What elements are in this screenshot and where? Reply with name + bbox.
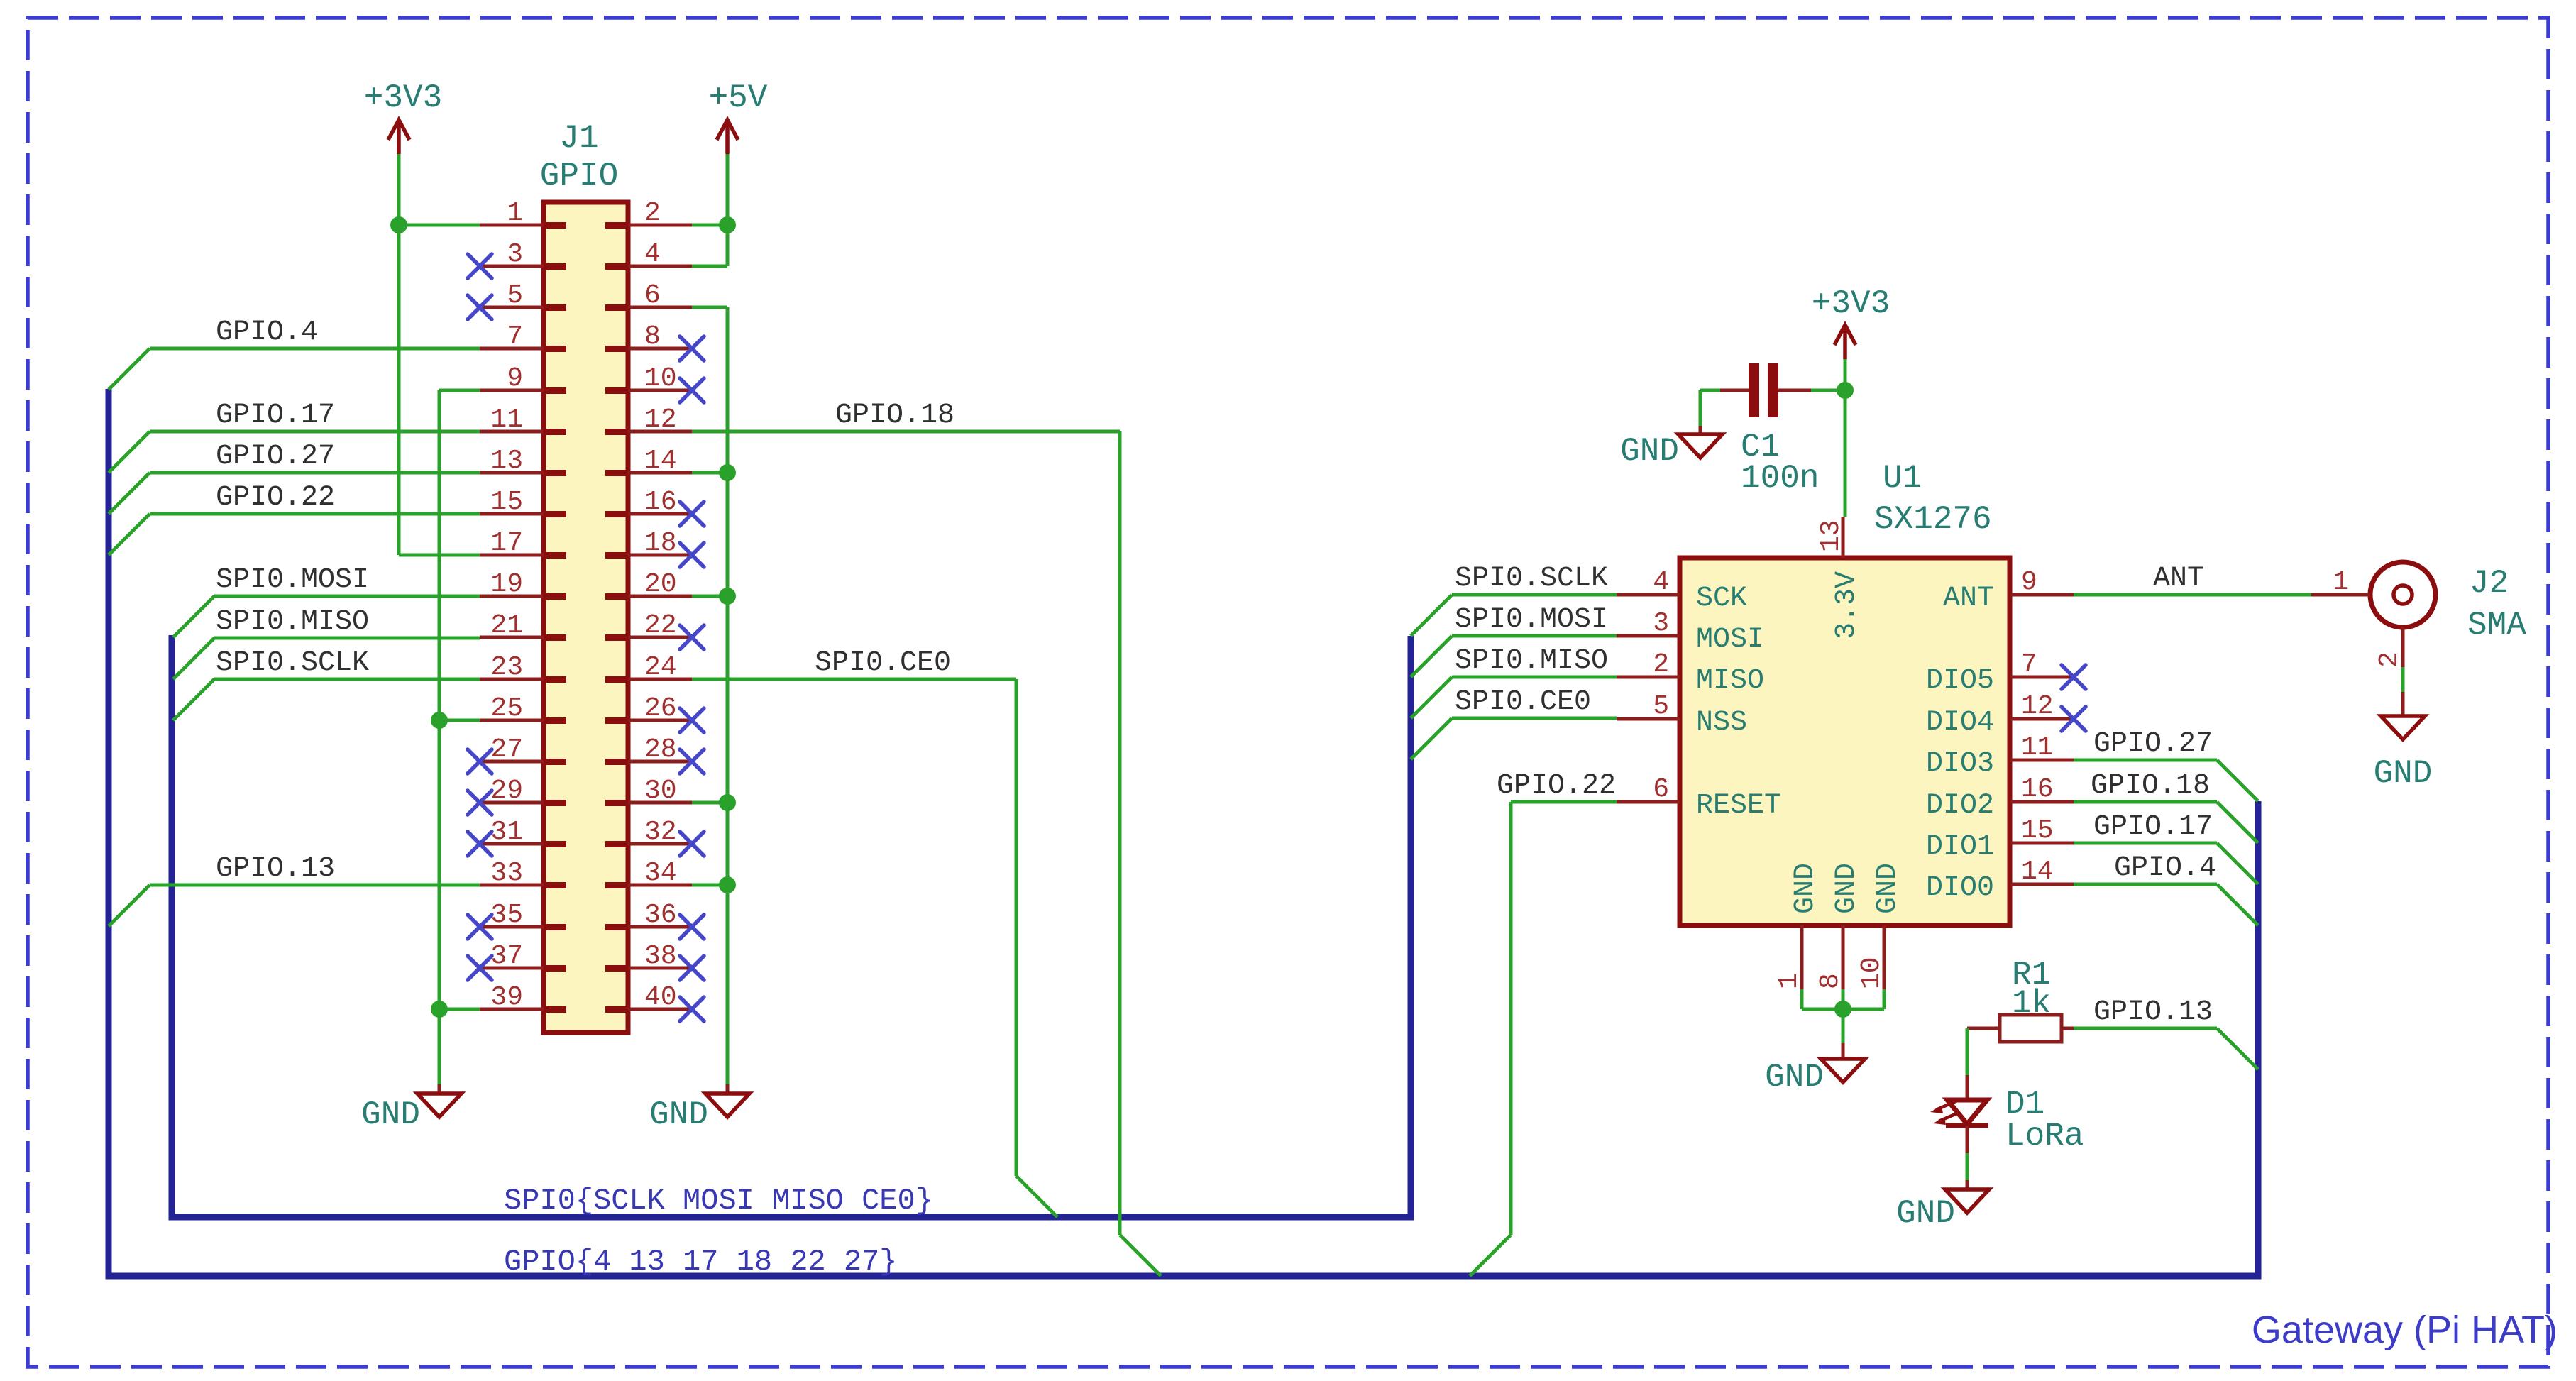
svg-text:SPI0.MISO: SPI0.MISO	[216, 606, 369, 638]
svg-text:J2: J2	[2470, 565, 2509, 602]
svg-text:12: 12	[644, 405, 677, 435]
wire GND column right (J1 pins 6,14,20,30,34)	[692, 307, 727, 1084]
bus GPIO{4 13 17 18 22 27}	[109, 389, 2258, 1276]
wire SPI0.MOSI (J1 pin19) with bus entry	[173, 596, 480, 637]
svg-text:GPIO{4 13 17 18 22 27}: GPIO{4 13 17 18 22 27}	[504, 1245, 898, 1279]
svg-text:SPI0.MOSI: SPI0.MOSI	[216, 564, 369, 596]
power symbol +5V (J1)	[709, 79, 768, 154]
ground symbol GND (D1)	[1896, 1189, 1989, 1232]
svg-text:1: 1	[507, 198, 523, 229]
power symbol +3V3 (U1)	[1812, 285, 1890, 359]
svg-text:11: 11	[2021, 732, 2054, 763]
svg-text:2: 2	[2374, 651, 2405, 668]
wire GND column left (J1 pins 9,25,39)	[439, 390, 480, 1084]
connector J2 SMA	[2311, 562, 2435, 627]
svg-text:2: 2	[644, 198, 661, 229]
svg-text:GND: GND	[1620, 433, 1679, 470]
svg-text:MISO: MISO	[1696, 665, 1764, 697]
svg-text:GPIO.22: GPIO.22	[1497, 770, 1616, 802]
junction GND at pin25	[431, 712, 448, 729]
U1 left pins (SCK,MOSI,MISO,NSS,RESET) with numbers	[1617, 567, 1781, 822]
svg-text:GPIO.27: GPIO.27	[216, 441, 335, 473]
bus SPI0{SCLK MOSI MISO CE0}	[172, 635, 1411, 1217]
wire U1 GND pins 1,8,10 to ground	[1802, 989, 1884, 1043]
svg-text:13: 13	[1816, 519, 1846, 552]
svg-text:9: 9	[2021, 567, 2037, 598]
no-connect X on U1 pin 7 (DIO5)	[2062, 665, 2086, 689]
svg-text:GND: GND	[2374, 755, 2433, 792]
svg-text:12: 12	[2021, 691, 2054, 722]
svg-text:SPI0.CE0: SPI0.CE0	[1455, 686, 1591, 718]
svg-text:GND: GND	[1872, 863, 1904, 914]
svg-text:SPI0.CE0: SPI0.CE0	[815, 647, 951, 679]
no-connect X on J1 pin 26	[680, 708, 704, 732]
svg-text:GPIO.4: GPIO.4	[2114, 852, 2216, 884]
svg-text:Gateway (Pi HAT): Gateway (Pi HAT)	[2252, 1309, 2558, 1351]
wire SPI0.CE0 (J1 pin24) down to SPI0 bus	[692, 679, 1057, 1217]
svg-text:GPIO.27: GPIO.27	[2093, 728, 2213, 760]
svg-text:SPI0{SCLK MOSI MISO CE0}: SPI0{SCLK MOSI MISO CE0}	[504, 1184, 933, 1218]
svg-text:1: 1	[1774, 973, 1805, 989]
no-connect X on J1 pin 16	[680, 502, 704, 526]
svg-text:28: 28	[644, 734, 677, 765]
svg-text:8: 8	[644, 321, 661, 352]
svg-text:25: 25	[490, 693, 523, 724]
svg-text:+5V: +5V	[709, 79, 768, 116]
junction +5V at pin2 wire	[719, 216, 736, 233]
connector J1 body	[544, 202, 628, 1033]
svg-text:39: 39	[490, 982, 523, 1013]
ground symbol GND (U1)	[1765, 1043, 1865, 1096]
svg-text:16: 16	[644, 487, 677, 517]
no-connect X on J1 pin 40	[680, 997, 704, 1021]
svg-text:34: 34	[644, 858, 677, 888]
svg-text:32: 32	[644, 817, 677, 847]
U1 right pins (ANT,DIO5..DIO0) with numbers	[1926, 567, 2074, 904]
svg-text:ANT: ANT	[2153, 563, 2204, 595]
ground symbol GND (J2)	[2374, 716, 2433, 792]
svg-text:38: 38	[644, 941, 677, 972]
svg-text:GPIO.4: GPIO.4	[216, 317, 318, 348]
svg-text:DIO5: DIO5	[1926, 665, 1994, 697]
ground symbol GND (below J1 right)	[649, 1084, 749, 1133]
svg-text:29: 29	[490, 776, 523, 806]
svg-text:GPIO.17: GPIO.17	[216, 400, 335, 431]
no-connect X on J1 pin 5	[468, 295, 492, 319]
wire GPIO.22 to U1 RESET with bus entry	[1470, 802, 1617, 1276]
svg-text:3.3V: 3.3V	[1831, 571, 1863, 639]
svg-text:6: 6	[1653, 774, 1669, 805]
wire SPI0.CE0 to U1 with bus entry	[1411, 718, 1617, 759]
no-connect X on J1 pin 10	[680, 378, 704, 402]
svg-text:7: 7	[2021, 649, 2037, 680]
svg-text:11: 11	[490, 405, 523, 435]
svg-text:GPIO.17: GPIO.17	[2093, 811, 2213, 843]
svg-text:GPIO.13: GPIO.13	[2093, 996, 2213, 1028]
svg-text:LoRa: LoRa	[2005, 1118, 2084, 1155]
wire C1 to GND	[1700, 390, 1720, 426]
svg-text:33: 33	[490, 858, 523, 888]
svg-text:3: 3	[507, 239, 523, 270]
svg-text:4: 4	[644, 239, 661, 270]
junction GND at pin14	[719, 464, 736, 481]
junction +3V3 / C1	[1837, 382, 1854, 399]
svg-text:GND: GND	[1765, 1059, 1824, 1096]
svg-text:6: 6	[644, 280, 661, 311]
J1 left pins 1-39 with pin numbers	[480, 198, 566, 1013]
svg-text:14: 14	[2021, 857, 2054, 887]
junction +3V3 at pin1 wire	[390, 216, 407, 233]
wire GPIO.22 (J1 pin15) with bus entry	[109, 514, 480, 555]
svg-text:22: 22	[644, 610, 677, 641]
junction U1 GND net	[1834, 1001, 1851, 1018]
no-connect X on J1 pin 18	[680, 543, 704, 567]
svg-text:35: 35	[490, 900, 523, 930]
wire GPIO.4 (U1 DIO) with bus entry	[2074, 884, 2258, 925]
wire SPI0.MISO to U1 with bus entry	[1411, 677, 1617, 718]
no-connect X on J1 pin 29	[468, 791, 492, 815]
no-connect X on U1 pin 12 (DIO4)	[2062, 707, 2086, 731]
svg-text:J1: J1	[559, 120, 598, 157]
svg-text:14: 14	[644, 446, 677, 476]
U1 top pin 13 line and number	[1816, 517, 1846, 558]
svg-text:24: 24	[644, 652, 677, 683]
svg-text:26: 26	[644, 693, 677, 724]
svg-text:SPI0.MISO: SPI0.MISO	[1455, 645, 1608, 677]
capacitor C1	[1720, 363, 1811, 417]
svg-text:23: 23	[490, 652, 523, 683]
svg-text:18: 18	[644, 528, 677, 559]
ground symbol GND (below J1 left)	[361, 1084, 461, 1133]
svg-text:27: 27	[490, 734, 523, 765]
svg-text:SMA: SMA	[2467, 607, 2526, 644]
no-connect X on J1 pin 32	[680, 832, 704, 856]
wire R1 to D1	[1966, 1028, 1969, 1100]
svg-text:15: 15	[2021, 815, 2054, 846]
svg-text:17: 17	[490, 528, 523, 559]
junction GND at pin30	[719, 794, 736, 811]
svg-text:30: 30	[644, 776, 677, 806]
wire GPIO.18 (U1 DIO) with bus entry	[2074, 802, 2258, 843]
junction GND at pin39	[431, 1001, 448, 1018]
svg-text:GPIO.13: GPIO.13	[216, 853, 335, 885]
junction GND at pin20	[719, 588, 736, 605]
svg-text:4: 4	[1653, 567, 1669, 598]
svg-text:36: 36	[644, 900, 677, 930]
no-connect X on J1 pin 31	[468, 832, 492, 856]
wire GPIO.13 (R1 to bus) with bus entry	[2074, 1028, 2258, 1069]
svg-text:+3V3: +3V3	[364, 79, 442, 116]
IC U1 SX1276 body	[1680, 558, 2010, 925]
wire GPIO.17 (U1 DIO) with bus entry	[2074, 843, 2258, 884]
svg-text:GND: GND	[361, 1096, 420, 1133]
LED D1	[1930, 1100, 1988, 1126]
svg-text:+3V3: +3V3	[1812, 285, 1890, 322]
U1 pin names GND GND GND (bottom)	[1790, 863, 1904, 914]
wire GPIO.27 (U1 DIO) with bus entry	[2074, 760, 2258, 801]
svg-text:100n: 100n	[1741, 460, 1819, 497]
no-connect X on J1 pin 27	[468, 749, 492, 774]
svg-text:GND: GND	[1790, 863, 1822, 914]
svg-text:DIO4: DIO4	[1926, 707, 1994, 739]
svg-text:5: 5	[1653, 691, 1669, 722]
svg-text:37: 37	[490, 941, 523, 972]
svg-text:DIO1: DIO1	[1926, 831, 1994, 863]
wire ANT (U1 pin9 to J2)	[2074, 593, 2311, 597]
svg-text:10: 10	[644, 363, 677, 394]
svg-text:DIO3: DIO3	[1926, 748, 1994, 780]
svg-text:7: 7	[507, 321, 523, 352]
svg-text:19: 19	[490, 569, 523, 600]
no-connect X on J1 pin 36	[680, 915, 704, 939]
wire SPI0.MOSI to U1 with bus entry	[1411, 636, 1617, 677]
no-connect X on J1 pin 28	[680, 749, 704, 774]
svg-text:3: 3	[1653, 608, 1669, 639]
J1 right pins 2-40 with pin numbers	[605, 198, 692, 1013]
J2 pin2 wire to GND	[2374, 627, 2405, 716]
svg-text:20: 20	[644, 569, 677, 600]
svg-text:10: 10	[1856, 957, 1887, 989]
wire GPIO.13 (J1 pin33) with bus entry	[109, 885, 480, 926]
svg-text:1k: 1k	[2012, 985, 2051, 1022]
svg-text:2: 2	[1653, 649, 1669, 680]
no-connect X on J1 pin 35	[468, 915, 492, 939]
svg-text:ANT: ANT	[1943, 583, 1994, 615]
wire SPI0.MISO (J1 pin21) with bus entry	[173, 638, 480, 679]
wire SPI0.SCLK to U1 with bus entry	[1411, 595, 1617, 636]
junction GND at pin34	[719, 876, 736, 893]
svg-text:RESET: RESET	[1696, 790, 1781, 822]
svg-text:8: 8	[1815, 973, 1846, 989]
resistor R1	[1967, 1015, 2074, 1042]
U1 bottom pins 1,8,10 (GND) with numbers	[1774, 925, 1887, 989]
svg-text:GPIO.22: GPIO.22	[216, 482, 335, 514]
power symbol +3V3 (J1)	[364, 79, 442, 154]
svg-text:DIO0: DIO0	[1926, 872, 1994, 904]
svg-text:SPI0.SCLK: SPI0.SCLK	[1455, 563, 1608, 595]
wire +5V to J1 pins 2 and 4	[692, 154, 727, 266]
no-connect X on J1 pin 38	[680, 956, 704, 980]
svg-text:16: 16	[2021, 774, 2054, 805]
svg-text:31: 31	[490, 817, 523, 847]
svg-text:5: 5	[507, 280, 523, 311]
svg-text:NSS: NSS	[1696, 707, 1747, 739]
ground symbol GND (C1)	[1620, 426, 1722, 470]
no-connect X on J1 pin 8	[680, 336, 704, 361]
svg-text:40: 40	[644, 982, 677, 1013]
wire +3V3 to U1 pin13	[1844, 359, 1847, 517]
no-connect X on J1 pin 37	[468, 956, 492, 980]
svg-text:GPIO.18: GPIO.18	[2091, 770, 2210, 802]
svg-text:SPI0.MOSI: SPI0.MOSI	[1455, 604, 1608, 636]
svg-text:SPI0.SCLK: SPI0.SCLK	[216, 647, 369, 679]
svg-text:GPIO: GPIO	[540, 158, 618, 194]
wire GPIO.17 (J1 pin11) with bus entry	[109, 431, 480, 473]
svg-text:GND: GND	[649, 1096, 708, 1133]
svg-text:9: 9	[507, 363, 523, 394]
wire GPIO.27 (J1 pin13) with bus entry	[109, 473, 480, 514]
svg-text:GPIO.18: GPIO.18	[835, 400, 954, 431]
wire C1 to +3V3 junction	[1811, 389, 1845, 392]
svg-text:MOSI: MOSI	[1696, 624, 1764, 656]
wire D1 to GND	[1966, 1126, 1969, 1189]
svg-text:21: 21	[490, 610, 523, 641]
svg-text:SX1276: SX1276	[1874, 501, 1992, 538]
svg-text:U1: U1	[1883, 460, 1922, 497]
no-connect X on J1 pin 22	[680, 625, 704, 649]
no-connect X on J1 pin 3	[468, 254, 492, 278]
svg-text:1: 1	[2333, 567, 2349, 598]
wire SPI0.SCLK (J1 pin23) with bus entry	[173, 679, 480, 720]
svg-text:13: 13	[490, 446, 523, 476]
wire +3V3 rail to J1 pins 1 and 17	[399, 154, 480, 555]
svg-text:DIO2: DIO2	[1926, 790, 1994, 822]
svg-text:GND: GND	[1831, 863, 1863, 914]
wire GPIO.18 (J1 pin12) down to GPIO bus	[692, 431, 1161, 1276]
svg-text:GND: GND	[1896, 1195, 1955, 1232]
wire GPIO.4 (J1 pin7) with bus entry	[109, 348, 480, 390]
svg-text:SCK: SCK	[1696, 583, 1747, 615]
svg-text:15: 15	[490, 487, 523, 517]
